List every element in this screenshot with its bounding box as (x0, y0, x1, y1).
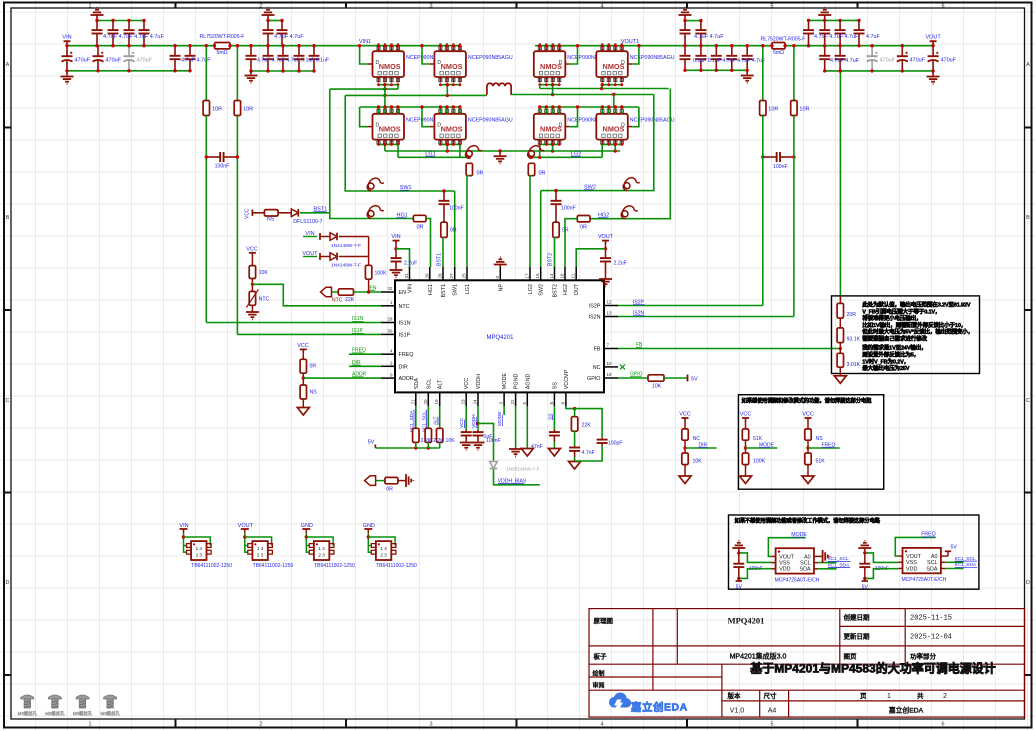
svg-text:D: D (621, 60, 625, 66)
svg-text:2 3: 2 3 (196, 553, 203, 558)
connector body J2 (248, 544, 253, 548)
ground mid power stage (499, 151, 501, 155)
mounting hole H1 M3 (21, 695, 34, 699)
wire row2 bottom mini rails (379, 143, 399, 145)
svg-text:VDDH: VDDH (476, 374, 482, 389)
svg-text:11: 11 (571, 273, 576, 278)
pin 27 SW1 (454, 267, 456, 280)
svg-text:TB64111002-1250: TB64111002-1250 (191, 563, 232, 569)
port VDDH bias out (365, 476, 376, 486)
svg-text:功率部分: 功率部分 (910, 652, 937, 661)
svg-text:V_FB引脚电压需大于等于0.1V，: V_FB引脚电压需大于等于0.1V， (862, 307, 940, 315)
wire vert SW to row2 right (613, 95, 615, 108)
wire sense right A (762, 46, 764, 101)
ground NTC chain (251, 305, 253, 311)
wire HG1 vertical (330, 89, 414, 218)
svg-text:OUT: OUT (574, 283, 580, 295)
svg-text:22: 22 (510, 399, 515, 405)
svg-text:VSS: VSS (779, 561, 790, 567)
svg-text:100nF: 100nF (773, 164, 788, 170)
svg-text:2025-12-04: 2025-12-04 (910, 634, 952, 642)
jumper squiggle LG1 (466, 146, 483, 159)
capacitor 47nF SS (553, 430, 555, 433)
ground flag DAC U2 (732, 547, 745, 549)
svg-text:1V时V_FB为0.2V，: 1V时V_FB为0.2V， (862, 357, 909, 365)
wire 100pF branch (575, 409, 603, 438)
svg-text:VCC: VCC (464, 378, 470, 389)
ground flag top mid-right (679, 14, 692, 16)
wire vert Q3 pin2 (552, 85, 554, 95)
svg-text:15: 15 (535, 273, 540, 279)
wire drain drop row2 Q8 (632, 107, 639, 127)
wire sense right down A (762, 116, 764, 306)
svg-text:4.7uF 4.7uF: 4.7uF 4.7uF (694, 34, 724, 40)
pin 2 DIR (381, 365, 395, 367)
svg-text:比如1V输出，则需配置外部反馈比小于10，: 比如1V输出，则需配置外部反馈比小于10， (862, 321, 966, 329)
svg-text:3.01K: 3.01K (847, 362, 861, 368)
capacitor 4.7nF comp (574, 431, 576, 446)
svg-text:1 4: 1 4 (196, 546, 203, 551)
inductor L1 main (487, 83, 511, 95)
svg-text:MCP4725A0T-E/CH: MCP4725A0T-E/CH (902, 577, 947, 583)
svg-text:NTC: NTC (332, 298, 343, 304)
pin 1 NTC (381, 305, 395, 307)
ground flag DAC U3 (858, 547, 871, 549)
note box DAC (729, 515, 979, 589)
wire SCL U2 (818, 562, 836, 564)
pin 19 ALT (439, 392, 441, 406)
pin 17 LG2 (529, 267, 531, 280)
svg-text:图页: 图页 (844, 653, 858, 661)
svg-text:1: 1 (887, 693, 891, 700)
svg-text:100pF: 100pF (608, 441, 623, 447)
wire connector J2 (244, 533, 246, 553)
svg-text:100K: 100K (753, 459, 766, 465)
resistor 10K ALT (437, 428, 443, 442)
svg-text:VOUT: VOUT (598, 234, 614, 240)
svg-text:D: D (1026, 580, 1030, 586)
svg-text:10R: 10R (243, 107, 253, 113)
svg-text:26: 26 (424, 273, 429, 279)
ground bank2 (250, 71, 252, 75)
svg-text:VOUT: VOUT (906, 554, 922, 560)
svg-text:RL7520WT-R005-F: RL7520WT-R005-F (200, 34, 245, 40)
svg-text:1: 1 (88, 3, 91, 9)
ground flag top-left (91, 14, 104, 16)
ground bank3 (746, 70, 748, 74)
capacitor bank2 below 5 (313, 46, 315, 56)
svg-text:NCEP090N85AGU: NCEP090N85AGU (468, 117, 513, 123)
svg-text:10R: 10R (212, 107, 222, 113)
power flag 5V gpio (664, 377, 688, 379)
wire chain mid1 (839, 318, 841, 328)
svg-text:SDA: SDA (926, 566, 937, 572)
transistor Q3 NMOS NCEP090N85AGU (539, 46, 541, 52)
svg-text:HG2: HG2 (563, 284, 569, 295)
resistor 22K EN (332, 291, 339, 293)
wire sense left down A (205, 116, 207, 323)
svg-text:2: 2 (259, 722, 262, 728)
pin 11 OUT (575, 267, 577, 280)
svg-text:1: 1 (390, 300, 393, 305)
svg-text:24: 24 (473, 399, 478, 405)
port NTC input (321, 287, 332, 297)
ground VDDH cap (472, 442, 485, 444)
wire DAC vdd U3 (865, 569, 899, 579)
wire NTC to IC (252, 284, 381, 306)
svg-text:12: 12 (607, 300, 613, 305)
ground SS cap (553, 442, 555, 449)
resistor 10K NTC (251, 257, 253, 266)
svg-text:NP: NP (498, 284, 504, 292)
svg-text:10K: 10K (652, 384, 662, 390)
ground rotated bias (398, 480, 406, 482)
capacitor out top 1 (808, 20, 810, 30)
svg-text:5mΩ: 5mΩ (216, 50, 227, 56)
svg-text:1 4: 1 4 (380, 546, 387, 551)
capacitor 470uF out 2 (932, 46, 934, 57)
wire VCCMP (566, 406, 575, 409)
wire HG2 vertical (590, 89, 670, 219)
wire bank3 bottom rail (685, 69, 747, 71)
svg-text:3: 3 (429, 3, 432, 9)
wire IS1N to IC (206, 322, 381, 324)
svg-text:VCC: VCC (246, 247, 258, 253)
svg-text:SCL: SCL (800, 561, 811, 567)
pin 7 FB (604, 348, 618, 350)
wire LG rail 1 (385, 150, 620, 152)
wire VOUT bus (535, 45, 772, 47)
svg-text:如果不想使用调频功能或者修改工作模式，请勿焊接这部分电路: 如果不想使用调频功能或者修改工作模式，请勿焊接这部分电路 (735, 517, 881, 525)
transistor Q7 NMOS NCEP090N85AGU (539, 108, 541, 114)
svg-text:VOUT: VOUT (779, 554, 795, 560)
resistor upper freq (807, 422, 809, 429)
ground comp (574, 457, 576, 462)
svg-text:20R: 20R (847, 312, 857, 318)
svg-text:1N5819HW-7-F: 1N5819HW-7-F (506, 467, 540, 473)
svg-text:SDA: SDA (800, 567, 811, 573)
capacitor 4.7uF top row 1 (96, 21, 98, 31)
transistor Q8 NMOS NCEP090N85AGU (601, 108, 603, 114)
svg-text:VIN: VIN (62, 35, 71, 41)
capacitor out below 1 (824, 46, 826, 56)
wire row1 source rail Q1Q2 (379, 84, 399, 86)
svg-text:470uF: 470uF (941, 58, 957, 64)
svg-text:47nF: 47nF (531, 444, 543, 450)
svg-text:2.2K: 2.2K (421, 438, 432, 444)
resistor 10R sense 4 (791, 101, 797, 116)
pin 3 MODE (503, 392, 505, 406)
svg-text:1N4148W-7-F: 1N4148W-7-F (331, 243, 361, 249)
wire VIN bus left (67, 45, 215, 47)
svg-text:2: 2 (943, 693, 947, 700)
svg-text:尺寸: 尺寸 (764, 691, 778, 700)
resistor upper dir (684, 422, 686, 429)
svg-text:SCL: SCL (426, 379, 432, 390)
wire drain drop Q1 (360, 46, 368, 64)
svg-text:M3螺丝孔: M3螺丝孔 (100, 710, 120, 717)
wire chain mid2 (839, 343, 841, 354)
svg-text:VDD: VDD (906, 566, 917, 572)
svg-text:0R: 0R (477, 171, 484, 177)
svg-text:创建日期: 创建日期 (844, 613, 871, 622)
svg-text:BST1: BST1 (441, 284, 447, 297)
wire bank2 bottom rail (251, 70, 314, 72)
pin 31 VIN (409, 267, 411, 280)
pin 25 LG1 (466, 267, 468, 280)
svg-text:2: 2 (259, 3, 262, 9)
pin 16 HG2 (564, 267, 566, 280)
wire mid-left mini rail (268, 20, 282, 22)
wire VDDH_BIAS (494, 470, 540, 485)
svg-text:D: D (6, 580, 10, 586)
capacitor bank2 below 4 (298, 46, 300, 56)
svg-text:27: 27 (449, 273, 454, 279)
svg-text:VIN: VIN (391, 234, 400, 240)
capacitor bank3 top 2 (700, 21, 702, 31)
svg-text:2 3: 2 3 (380, 553, 387, 558)
svg-text:GPIO: GPIO (587, 376, 600, 382)
svg-text:NTC: NTC (259, 297, 270, 303)
pin 5 AGND (526, 392, 528, 406)
resistor 0R ADDR (302, 353, 304, 359)
svg-text:1 4: 1 4 (257, 546, 264, 551)
ground freq (807, 465, 809, 476)
ground AGND (526, 406, 528, 449)
svg-text:NS: NS (267, 217, 275, 223)
pin 8 SS (553, 392, 555, 406)
svg-text:C: C (1026, 398, 1030, 404)
pin 24 VDDH (477, 392, 479, 406)
svg-text:A0: A0 (804, 554, 811, 560)
svg-text:B: B (6, 215, 10, 221)
svg-text:2 3: 2 3 (318, 553, 325, 558)
capacitor 4.7uF top row 4 (143, 21, 145, 31)
wire VDDH decouple (477, 406, 479, 430)
svg-text:1 4: 1 4 (318, 546, 325, 551)
svg-text:32: 32 (387, 286, 393, 291)
wire VCC decouple (465, 406, 467, 430)
svg-text:VCC: VCC (679, 412, 691, 418)
wire VDDH bias branch (478, 423, 494, 460)
svg-text:D: D (437, 123, 441, 129)
svg-text:1N4148W-7-F: 1N4148W-7-F (331, 263, 361, 269)
svg-text:NMOS: NMOS (379, 124, 401, 133)
svg-text:10: 10 (607, 361, 613, 366)
wire IIC1_SCL pullup (427, 406, 429, 428)
ground flag top mid-left (262, 14, 275, 16)
capacitor 4.7uF top row 3 (128, 21, 130, 31)
svg-text:IS1N: IS1N (399, 321, 411, 327)
wire SDA U3 (945, 568, 963, 570)
svg-text:23: 23 (461, 399, 466, 405)
wire LG2 to pin (529, 176, 531, 267)
svg-text:ADDR: ADDR (399, 376, 414, 382)
svg-text:NS: NS (816, 436, 824, 442)
svg-text:BST2: BST2 (548, 253, 554, 266)
wire SW2 vertical (541, 95, 654, 191)
svg-text:D: D (376, 60, 380, 66)
wire BST1 to pin28 (442, 237, 444, 267)
transistor Q1 NMOS NCEP090N85AGU (378, 46, 380, 52)
capacitor out top 2 (824, 20, 826, 30)
pin 30 IS1P (381, 333, 395, 335)
svg-text:SDA: SDA (414, 378, 420, 389)
wire VIN bus mid (230, 45, 460, 47)
wire vert Q4 pin1 (601, 85, 603, 89)
thermistor NTC (251, 279, 253, 292)
wire sense right down B (793, 116, 795, 317)
svg-text:29: 29 (387, 317, 393, 322)
svg-text:4.7uF 4.7uF 4.7uF 0.1uF 0.1uF: 4.7uF 4.7uF 4.7uF 0.1uF 0.1uF (257, 58, 329, 64)
svg-text:6: 6 (941, 722, 944, 728)
pin 26 HG1 (429, 267, 431, 280)
svg-text:28: 28 (438, 273, 443, 279)
wire HG1 to pin26 (426, 219, 431, 268)
pin 15 SW2 (540, 267, 542, 280)
mounting hole H4 M3 (104, 695, 117, 699)
svg-text:2.2K: 2.2K (433, 438, 444, 444)
svg-text:EN: EN (399, 290, 407, 296)
capacitor 100pF comp (601, 438, 603, 440)
svg-text:VOUT: VOUT (238, 523, 254, 529)
capacitor 470uF input 3 (DNP) (128, 46, 130, 57)
wire connector J3 (305, 533, 307, 553)
svg-text:MODE: MODE (502, 373, 508, 390)
wire out bottom rail (825, 70, 933, 72)
svg-text:25: 25 (462, 273, 467, 279)
wire 100K to EN (368, 279, 370, 292)
op-amp U1 MPQ4201 body (395, 280, 604, 392)
svg-text:IS1P: IS1P (399, 332, 411, 338)
pin 21 SDA (415, 392, 417, 406)
svg-text:470uF: 470uF (880, 58, 896, 64)
wire vert Q2 pin2 (446, 85, 448, 96)
svg-text:NTC: NTC (399, 304, 410, 310)
ground VCC cap (460, 442, 473, 444)
ground mode (745, 465, 747, 476)
svg-text:LG2: LG2 (528, 284, 534, 294)
svg-text:VIN1: VIN1 (359, 39, 371, 45)
connector body J1 (187, 544, 192, 548)
resistor 0R BST2 (553, 222, 559, 237)
ground VOUT cap (605, 274, 607, 279)
note box MODE FREQ (738, 395, 883, 490)
wire FB sense vertical (839, 71, 841, 300)
resistor 0R HG2 (577, 216, 590, 222)
svg-text:FB: FB (594, 347, 601, 353)
wire gate rail right (540, 88, 669, 90)
ground input bank (66, 71, 68, 76)
capacitor 2.2uF VOUT (605, 255, 607, 259)
svg-text:DFLS1100-7: DFLS1100-7 (293, 219, 322, 225)
svg-text:0R: 0R (310, 364, 317, 370)
svg-text:51K: 51K (753, 436, 763, 442)
svg-text:470uF: 470uF (137, 58, 153, 64)
svg-text:嘉立创EDA: 嘉立创EDA (889, 706, 924, 715)
note box FB (832, 296, 980, 374)
capacitor bank3 below 4 (731, 46, 733, 56)
wire SS (553, 406, 555, 430)
svg-text:VCC: VCC (802, 412, 814, 418)
svg-text:SCL: SCL (927, 560, 938, 566)
svg-text:绘制: 绘制 (593, 670, 605, 678)
svg-text:D: D (621, 123, 625, 129)
svg-text:18: 18 (607, 372, 613, 377)
svg-text:M3螺丝孔: M3螺丝孔 (18, 710, 38, 717)
svg-text:D: D (559, 123, 563, 129)
resistor 0R BST1 (441, 222, 447, 237)
svg-text:ALT: ALT (438, 379, 444, 389)
wire GPIO (618, 377, 648, 379)
capacitor bank3 below 5 (746, 46, 748, 56)
svg-text:2.2uF: 2.2uF (614, 260, 627, 266)
no-connect X pin10 (620, 365, 625, 370)
capacitor 4.7uF bank2 top 1 (267, 21, 269, 31)
pin 14 BST2 (554, 267, 556, 280)
wire SW2 to pin15 (540, 191, 542, 267)
pin 13 IS2N (604, 316, 618, 318)
svg-text:PGND: PGND (514, 374, 520, 390)
wire input bottom rail (67, 70, 190, 72)
svg-text:则设置外部反馈比为5，: 则设置外部反馈比为5， (862, 351, 919, 359)
wire BST1 label wire (300, 212, 330, 214)
capacitor 100nF sense right (763, 156, 777, 158)
svg-text:嘉立创EDA: 嘉立创EDA (630, 701, 688, 714)
dac U U2 MCP4725A0T-E/CH (776, 548, 814, 573)
wire row2 pin verts (384, 144, 386, 151)
svg-text:NMOS: NMOS (441, 62, 463, 71)
wire MODE stub (503, 406, 505, 415)
capacitor 2.2uF VIN (395, 255, 397, 259)
svg-text:VSS: VSS (906, 560, 917, 566)
resistor 10R sense 3 (760, 101, 766, 116)
svg-text:1: 1 (88, 722, 91, 728)
wire vert Q1 pin4 (397, 85, 399, 89)
svg-text:4.7nF: 4.7nF (582, 450, 595, 456)
svg-text:MPQ4201: MPQ4201 (728, 616, 765, 626)
svg-text:B: B (1026, 215, 1030, 221)
resistor 0R LG1 (466, 163, 472, 175)
svg-text:470uF: 470uF (106, 58, 122, 64)
svg-text:审阅: 审阅 (593, 682, 605, 690)
capacitor bank3 below 1 (684, 46, 686, 56)
wire IS1P to IC (237, 333, 381, 335)
resistor NS ADDR (302, 373, 304, 385)
wire row2 top rail left (360, 106, 460, 108)
svg-text:100nF: 100nF (215, 164, 230, 170)
ground FB chain (839, 367, 841, 376)
svg-text:D: D (376, 123, 380, 129)
wire sense left A (205, 46, 207, 101)
svg-text:3: 3 (429, 722, 432, 728)
svg-text:470uF: 470uF (910, 58, 926, 64)
svg-text:VCC: VCC (740, 412, 752, 418)
ground flag NP pin (494, 264, 507, 266)
wire BST2 to pin14 (554, 237, 556, 267)
wire SW rail right (511, 94, 654, 96)
svg-text:3: 3 (499, 402, 504, 405)
resistor 2.2K SCL (425, 428, 431, 442)
connector body J3 (309, 544, 314, 548)
capacitor out below 2 (839, 46, 841, 56)
wire SCL U3 (945, 561, 963, 563)
jumper squiggle SW2 (623, 178, 640, 191)
svg-text:0: 0 (495, 276, 500, 279)
svg-text:共: 共 (917, 691, 924, 700)
svg-text:D: D (559, 60, 563, 66)
svg-text:VCCMP: VCCMP (564, 369, 570, 389)
